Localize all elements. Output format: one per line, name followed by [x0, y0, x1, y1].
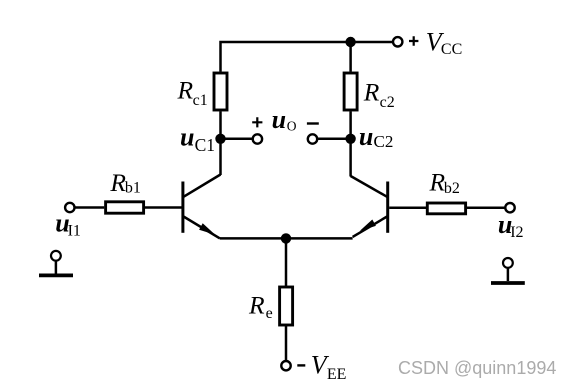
resistor Re	[280, 287, 293, 325]
transistor Q1 emitter lead	[184, 217, 220, 239]
label Rb1	[109, 168, 140, 197]
label Rc1	[177, 76, 208, 109]
node uC2 dot	[345, 134, 355, 144]
label uC1	[180, 123, 215, 155]
svg-text:CSDN @quinn1994: CSDN @quinn1994	[398, 358, 556, 378]
transistor Q2 base bar	[386, 182, 389, 233]
svg-text:C2: C2	[374, 132, 394, 151]
svg-text:b1: b1	[125, 180, 141, 197]
label Re	[248, 291, 273, 322]
wire Rc1 bottom to Q1 collector	[219, 112, 222, 176]
wire Q2 base to Rb2	[389, 206, 426, 209]
wire Rb2 to input terminal	[466, 206, 505, 209]
svg-text:e: e	[266, 305, 273, 322]
svg-text:R: R	[177, 76, 194, 105]
transistor Q2 collector lead	[351, 176, 388, 197]
svg-text:b2: b2	[444, 180, 460, 197]
wire Rc2 bottom to Q2 collector	[349, 112, 352, 177]
wire Re to -VEE terminal	[285, 325, 288, 361]
svg-text:I1: I1	[68, 223, 81, 240]
resistor Rb1	[106, 202, 144, 213]
terminal uO minus circle	[308, 134, 317, 143]
resistor Rc2	[344, 73, 357, 110]
svg-text:c2: c2	[380, 94, 395, 111]
wire Rb1 to Q1 base	[145, 206, 182, 209]
wire top rail to Rc2	[349, 42, 352, 72]
label minus sign of uO	[307, 122, 319, 124]
label -VEE	[297, 351, 346, 383]
resistor Rc1	[214, 73, 227, 110]
svg-text:C1: C1	[195, 135, 215, 155]
svg-text:EE: EE	[327, 366, 347, 383]
wire uC2 to output terminal	[318, 138, 351, 141]
svg-text:u: u	[272, 105, 286, 134]
svg-text:R: R	[109, 168, 126, 197]
svg-text:O: O	[287, 118, 297, 133]
svg-text:R: R	[248, 291, 265, 320]
label +VCC	[409, 27, 462, 58]
label uO	[272, 105, 297, 134]
label plus sign of uO	[252, 117, 262, 127]
label Rc2	[363, 78, 395, 111]
label Rb2	[429, 167, 460, 197]
svg-text:CC: CC	[441, 41, 462, 58]
ground symbol left	[39, 251, 73, 275]
label uI1	[55, 209, 81, 240]
transistor Q2 emitter arrow	[360, 220, 376, 231]
wire uC1 to output terminal	[221, 138, 253, 141]
label uI2	[498, 210, 524, 241]
svg-text:u: u	[359, 122, 373, 151]
transistor Q1 emitter arrow	[199, 223, 215, 234]
svg-text:R: R	[363, 78, 380, 107]
wire input terminal to Rb1	[75, 206, 104, 209]
transistor Q2 emitter lead	[353, 217, 388, 237]
label uC2	[359, 122, 393, 151]
terminal -VEE circle	[281, 361, 290, 370]
svg-text:c1: c1	[193, 92, 208, 109]
terminal uI2 circle	[505, 203, 514, 212]
node VCC branch dot	[345, 37, 355, 47]
ground symbol right	[491, 258, 525, 283]
terminal uO plus circle	[253, 134, 262, 143]
node uC1 dot	[215, 134, 225, 144]
resistor Rb2	[427, 203, 465, 214]
svg-text:I2: I2	[510, 224, 523, 241]
terminal uI1 circle	[65, 203, 74, 212]
transistor Q1 base bar	[181, 182, 184, 233]
svg-text:u: u	[180, 123, 194, 152]
transistor Q1 collector lead	[184, 175, 221, 197]
terminal +VCC circle	[393, 37, 402, 46]
wire top rail +VCC	[221, 42, 393, 72]
wire junction to Re	[285, 238, 288, 286]
wire emitter bus	[220, 237, 353, 240]
node emitter junction dot	[281, 233, 291, 243]
